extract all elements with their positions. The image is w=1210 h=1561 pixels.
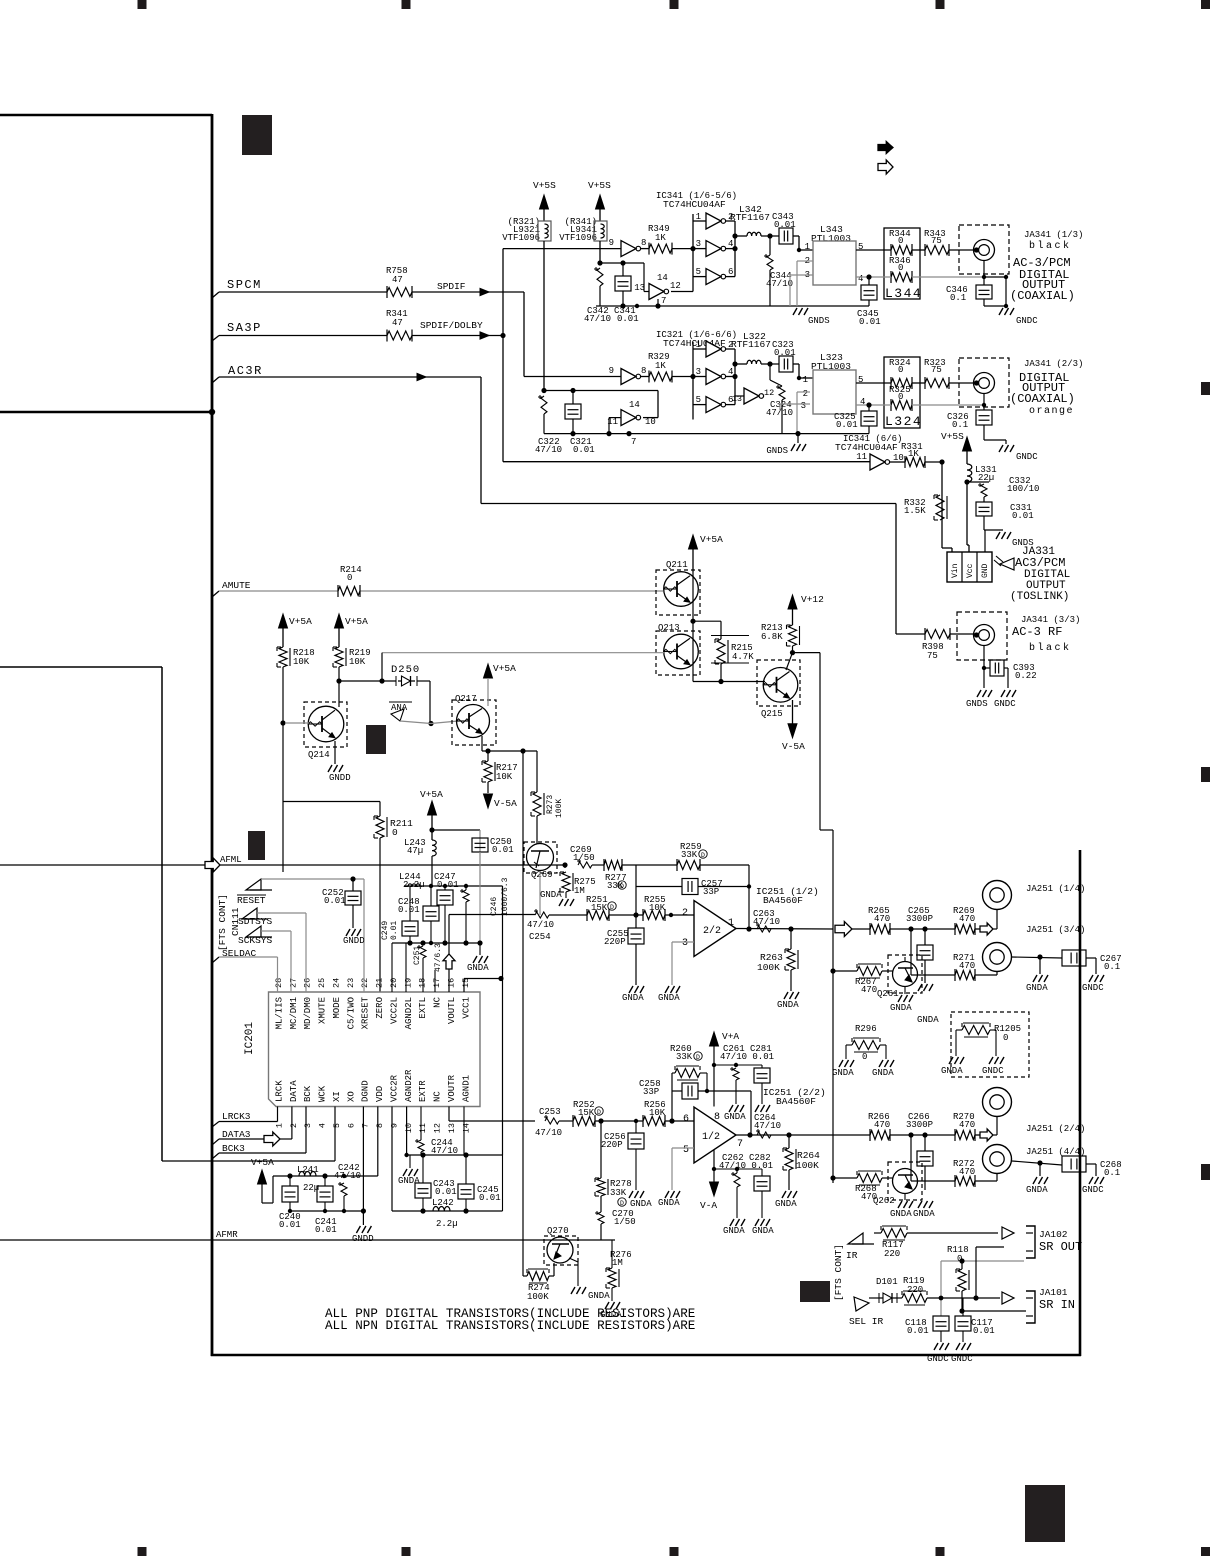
wire JA102 switch to SR IN	[976, 1246, 1004, 1248]
node BCK3 tap	[212, 1153, 219, 1159]
ground GNDS toslink	[996, 532, 1000, 539]
wire pin17 stub	[434, 970, 436, 992]
ground GNDA C282	[755, 1219, 759, 1226]
ground GNDA R296 left	[839, 1060, 843, 1067]
svg-text:BCK: BCK	[303, 1085, 313, 1102]
svg-text:MC/DM1: MC/DM1	[289, 997, 299, 1029]
wire AFMR	[0, 1239, 615, 1241]
registration tick bottom 3	[670, 1547, 679, 1556]
svg-text:C254: C254	[529, 932, 551, 942]
wire C323 to PTL2 pin1	[793, 363, 799, 365]
legend arrow filled	[878, 142, 893, 154]
wire inverter bank2 output bus	[734, 349, 736, 405]
resistor R117 220	[881, 1229, 907, 1238]
wire inverter 10 output	[643, 417, 658, 419]
node Q214 base junction	[280, 720, 285, 725]
registration tick right edge 2	[1201, 767, 1210, 782]
capacitor C241 0.01	[324, 1176, 326, 1186]
svg-text:10K: 10K	[293, 657, 310, 667]
svg-text:GNDC: GNDC	[1016, 452, 1038, 462]
svg-text:ML/IIS: ML/IIS	[275, 997, 285, 1029]
svg-text:V+12: V+12	[801, 594, 824, 605]
svg-text:SPCM: SPCM	[227, 278, 262, 292]
svg-text:V+5A: V+5A	[251, 1157, 274, 1168]
svg-text:3: 3	[696, 367, 701, 377]
capacitor C282 0.01	[761, 1169, 763, 1176]
svg-text:GNDA: GNDA	[723, 1226, 745, 1236]
svg-text:GNDC: GNDC	[927, 1354, 949, 1364]
arrow SPDIF direction	[480, 288, 489, 295]
registration tick right edge 1	[1201, 382, 1210, 395]
svg-text:GNDA: GNDA	[588, 1291, 610, 1301]
wire PTL pin3 stub	[790, 274, 813, 276]
ground GNDD dac	[356, 1226, 360, 1233]
wire Q270 emitter	[569, 1258, 578, 1262]
svg-text:GNDA: GNDA	[872, 1068, 894, 1078]
wire SDTSYS	[257, 912, 306, 914]
svg-text:JA341 (3/3): JA341 (3/3)	[1021, 615, 1080, 625]
svg-text:33K: 33K	[676, 1052, 693, 1062]
black marker block A	[242, 115, 272, 155]
svg-text:LRCK: LRCK	[275, 1080, 285, 1102]
svg-text:GNDD: GNDD	[343, 936, 365, 946]
node mute bus R267	[830, 968, 835, 973]
wire digital rail	[273, 1175, 378, 1177]
svg-text:Vin: Vin	[951, 563, 960, 578]
svg-text:GNDC: GNDC	[982, 1066, 1004, 1076]
wire VOUTL to C254	[449, 914, 535, 916]
svg-text:V+5A: V+5A	[345, 616, 368, 627]
svg-text:SCKSYS: SCKSYS	[238, 935, 273, 946]
svg-text:33P: 33P	[703, 887, 719, 897]
svg-text:47/10: 47/10	[527, 920, 554, 930]
svg-text:75: 75	[931, 236, 942, 246]
ground GNDA C255	[629, 986, 633, 993]
wire R344 to R343	[912, 249, 925, 251]
svg-text:R273: R273	[546, 795, 555, 814]
svg-text:orange: orange	[1029, 406, 1074, 417]
svg-text:3: 3	[682, 938, 688, 949]
capacitor C117 0.01	[962, 1298, 964, 1316]
wire lower op-amp output	[735, 1134, 870, 1136]
wire inverter bank input bus	[692, 214, 694, 292]
svg-text:0.01: 0.01	[907, 1326, 929, 1336]
wire SPDIF to IC321	[523, 292, 525, 377]
wire Q211 emitter chain	[692, 572, 694, 682]
node R219 D250	[336, 678, 341, 683]
svg-text:3: 3	[801, 401, 806, 411]
node SPDIF/DOLBY junction	[500, 333, 505, 338]
svg-text:V+5A: V+5A	[493, 663, 516, 674]
arrow JA102	[1002, 1227, 1014, 1239]
resistor R264 100K	[788, 1135, 790, 1148]
connector JA341 2/3 coax jack	[959, 358, 1009, 407]
wire C250 column	[479, 852, 481, 943]
svg-text:C249: C249	[381, 921, 390, 940]
capacitor C256 220P	[635, 1121, 637, 1133]
svg-text:EXTR: EXTR	[418, 1080, 428, 1102]
capacitor C244 47/10	[420, 1107, 422, 1141]
svg-text:2/2: 2/2	[703, 925, 721, 937]
svg-text:V+5A: V+5A	[420, 789, 443, 800]
resistor network L324 box	[884, 357, 920, 428]
svg-text:AMUTE: AMUTE	[222, 580, 251, 591]
wire to JA101	[927, 1297, 1000, 1299]
svg-text:JA251 (2/4): JA251 (2/4)	[1026, 1124, 1085, 1134]
node C323 junction	[767, 361, 772, 366]
svg-text:Q261: Q261	[877, 989, 899, 999]
wire V+5S row1 rail	[600, 262, 644, 264]
svg-text:11: 11	[856, 452, 867, 462]
svg-text:6: 6	[683, 1114, 689, 1125]
connector pin SEL IR	[854, 1297, 869, 1311]
svg-text:WCK: WCK	[318, 1085, 328, 1102]
svg-text:GNDD: GNDD	[329, 773, 351, 783]
ground GNDA dac	[479, 943, 481, 955]
capacitor C324 47/10	[769, 364, 771, 380]
svg-text:GNDS: GNDS	[966, 699, 988, 709]
svg-text:GNDA: GNDA	[658, 1198, 680, 1208]
arrow line out	[835, 922, 852, 937]
ground GNDA C281	[755, 1105, 759, 1112]
svg-text:5: 5	[683, 1145, 689, 1156]
wire XI from sub board	[162, 1160, 335, 1162]
svg-text:16: 16	[446, 978, 456, 988]
svg-text:EXTL: EXTL	[418, 997, 428, 1019]
svg-text:DATA3: DATA3	[222, 1129, 251, 1140]
svg-text:GNDC: GNDC	[1082, 983, 1104, 993]
svg-text:RTF1167: RTF1167	[731, 339, 771, 350]
wire op-amp pin5 ground	[672, 1147, 694, 1149]
wire jack 3/4 shield	[1012, 957, 1062, 958]
svg-text:ALL NPN DIGITAL TRANSISTORS(IN: ALL NPN DIGITAL TRANSISTORS(INCLUDE RESI…	[325, 1319, 695, 1333]
capacitor C255 220P	[635, 927, 637, 929]
ground GNDS rf	[977, 690, 981, 697]
svg-text:0: 0	[862, 1052, 867, 1062]
capacitor C342 47/10	[597, 268, 603, 286]
wire DGND pin7	[362, 1107, 364, 1226]
capacitor C240 0.01	[289, 1176, 291, 1186]
svg-text:1.5K: 1.5K	[904, 506, 926, 516]
svg-text:0.01: 0.01	[324, 896, 346, 906]
connector pin RESET	[246, 879, 261, 890]
svg-text:75: 75	[927, 651, 938, 661]
resistor R398 75	[925, 630, 950, 639]
svg-text:JA251 (1/4): JA251 (1/4)	[1026, 884, 1085, 894]
svg-text:1: 1	[805, 242, 810, 252]
svg-text:GNDA: GNDA	[398, 1176, 420, 1186]
svg-text:(COAXIAL): (COAXIAL)	[1010, 289, 1075, 303]
svg-text:470: 470	[874, 914, 890, 924]
registration tick top 2	[402, 0, 411, 9]
ground GNDA C266	[918, 1201, 922, 1208]
node LRCK3 tap	[212, 1122, 219, 1128]
svg-text:470: 470	[959, 1167, 975, 1177]
svg-text:0: 0	[898, 236, 903, 246]
svg-text:0.01: 0.01	[973, 1326, 995, 1336]
sheet border top-left segment	[0, 114, 212, 117]
node AMUTE tap	[212, 591, 219, 597]
resistor R273 100K	[536, 751, 538, 792]
svg-text:V-A: V-A	[700, 1200, 717, 1211]
node lower summing junction	[598, 1118, 603, 1123]
node SPCM tap	[212, 292, 219, 298]
wire Q269 collector stub	[539, 871, 541, 915]
svg-text:BA4560F: BA4560F	[776, 1096, 816, 1107]
connector JA341 1/3 coax jack	[959, 225, 1009, 274]
transistor Q261 mute	[888, 955, 922, 993]
capacitor C261 47/10	[733, 1068, 739, 1080]
svg-text:0.01: 0.01	[479, 1193, 501, 1203]
svg-text:10K: 10K	[496, 772, 513, 782]
svg-text:AGND2R: AGND2R	[404, 1069, 414, 1102]
svg-text:V+5S: V+5S	[588, 180, 611, 191]
svg-text:47/10: 47/10	[431, 1146, 458, 1156]
svg-text:Q215: Q215	[761, 709, 783, 719]
wire RF jack shield	[983, 646, 985, 688]
svg-text:100K: 100K	[555, 799, 564, 818]
svg-text:0: 0	[898, 263, 903, 273]
svg-text:0.01: 0.01	[859, 317, 881, 327]
wire AMUTE	[219, 590, 338, 592]
svg-text:2: 2	[289, 1123, 299, 1128]
svg-text:1M: 1M	[574, 886, 585, 896]
svg-text:GNDC: GNDC	[951, 1354, 973, 1364]
transistor Q215	[757, 660, 800, 706]
svg-text:0.01: 0.01	[279, 1220, 301, 1230]
connector JA101 SR IN	[1026, 1291, 1035, 1323]
svg-text:3: 3	[696, 239, 701, 249]
svg-text:0.1: 0.1	[1104, 962, 1120, 972]
svg-text:12: 12	[670, 281, 681, 291]
svg-text:75: 75	[931, 365, 942, 375]
capacitor C345 0.01	[868, 277, 870, 285]
svg-text:AC3R: AC3R	[228, 364, 263, 378]
svg-text:1K: 1K	[655, 233, 666, 243]
svg-text:2.2µ: 2.2µ	[403, 880, 425, 890]
svg-text:D: D	[620, 883, 624, 890]
svg-text:VOUTL: VOUTL	[447, 997, 457, 1024]
feedback network lower	[671, 1073, 673, 1121]
svg-text:C246: C246	[490, 897, 499, 916]
wire to C250	[432, 829, 480, 831]
wire to GNDS toslink	[984, 529, 1003, 531]
svg-text:DGND: DGND	[361, 1080, 371, 1102]
ground GNDA pin3	[665, 986, 669, 993]
svg-text:7: 7	[631, 437, 636, 447]
svg-text:47/10: 47/10	[535, 1128, 562, 1138]
svg-text:0.01: 0.01	[573, 445, 595, 455]
svg-text:33P: 33P	[643, 1087, 659, 1097]
wire PTL pin2 stub	[797, 260, 813, 262]
svg-text:4.7K: 4.7K	[732, 652, 754, 662]
svg-text:TC74HCU04AF: TC74HCU04AF	[663, 199, 726, 210]
capacitor C245 0.01	[465, 1155, 467, 1184]
svg-text:1000/6.3: 1000/6.3	[501, 877, 510, 916]
svg-text:ZERO: ZERO	[375, 997, 385, 1019]
svg-text:GNDA: GNDA	[467, 963, 489, 973]
wire PTL2 pin3 stub	[780, 403, 810, 405]
svg-text:15K: 15K	[591, 903, 608, 913]
wire jack2 shield down	[983, 394, 985, 405]
ground GNDC jack34	[1089, 975, 1093, 982]
capacitor C254 47/10	[535, 912, 549, 918]
svg-text:VCC2L: VCC2L	[389, 997, 399, 1024]
svg-text:D: D	[610, 904, 614, 911]
svg-text:47/10: 47/10	[334, 1171, 361, 1181]
svg-text:0.01: 0.01	[315, 1225, 337, 1235]
wire Q213 base	[382, 652, 664, 654]
wire AFML to summing node	[622, 864, 677, 866]
wire Q214 collector	[338, 681, 340, 707]
power V-5A R217	[484, 794, 493, 808]
svg-text:6: 6	[728, 267, 733, 277]
svg-text:GNDS: GNDS	[766, 446, 788, 456]
wire pin19 to bus	[405, 943, 407, 992]
svg-text:GNDA: GNDA	[913, 1209, 935, 1219]
svg-text:24: 24	[331, 978, 341, 988]
svg-text:47: 47	[392, 275, 403, 285]
svg-text:AGND2L: AGND2L	[404, 997, 414, 1029]
wire GNDS bus row2 oscillator	[544, 433, 658, 435]
wire IR to JA102	[874, 1232, 881, 1234]
capacitor C281 0.01	[761, 1065, 763, 1068]
ground GNDD C252	[346, 929, 350, 936]
wire V-A pin4	[713, 1150, 715, 1182]
ground GNDA R275	[559, 899, 563, 906]
wire VCC2R pin9 loop	[391, 1107, 393, 1212]
svg-text:100/10: 100/10	[1007, 484, 1039, 494]
svg-text:black: black	[1029, 240, 1072, 252]
capacitor C325 0.01	[868, 405, 870, 411]
node mute bus R268	[830, 1175, 835, 1180]
off-page heavy wire y=412	[0, 411, 212, 414]
wire inverter bank2 input bus	[692, 342, 694, 420]
svg-text:10: 10	[645, 417, 656, 427]
wire to R271 branch	[910, 929, 912, 975]
svg-text:470: 470	[874, 1120, 890, 1130]
node L331 out	[964, 479, 969, 484]
svg-text:1/50: 1/50	[573, 853, 595, 863]
svg-text:RESET: RESET	[237, 895, 266, 906]
svg-text:Vcc: Vcc	[966, 563, 975, 578]
capacitor C322 47/10	[541, 396, 547, 414]
arrow to jack 2/4	[980, 1129, 993, 1141]
wire Q215 collector	[786, 653, 793, 670]
ground GNDA pin5	[665, 1191, 669, 1198]
svg-text:33K: 33K	[610, 1188, 627, 1198]
wire GNDS bus row2 right	[658, 433, 869, 435]
ground GNDC row2	[999, 445, 1003, 452]
svg-text:V+5S: V+5S	[533, 180, 556, 191]
svg-text:470: 470	[959, 1120, 975, 1130]
svg-text:BA4560F: BA4560F	[763, 895, 803, 906]
ground GNDA R264	[782, 1191, 786, 1198]
wire SCKSYS	[261, 930, 291, 932]
node R349 output junction	[690, 246, 695, 251]
registration tick bottom 4	[936, 1547, 945, 1556]
wire Vcc decoupling	[967, 481, 989, 483]
ground GNDA jack34	[1033, 975, 1037, 982]
sheet border right	[1079, 850, 1082, 1356]
node SELDAC tap	[212, 957, 219, 963]
svg-text:0: 0	[1003, 1033, 1008, 1043]
svg-text:GNDA: GNDA	[1026, 983, 1048, 993]
connector pin SDTSYS	[242, 908, 257, 919]
wire summing node vertical	[635, 865, 637, 928]
svg-text:VDD: VDD	[375, 1086, 385, 1102]
svg-text:XI: XI	[332, 1091, 342, 1102]
power V-A	[710, 1182, 719, 1196]
svg-text:V+5A: V+5A	[289, 616, 312, 627]
ground GNDC C117	[956, 1343, 960, 1350]
svg-text:14: 14	[629, 400, 640, 410]
inductor L331 22u	[967, 464, 972, 482]
node L243 top	[429, 827, 434, 832]
power V-5A Q215	[792, 700, 794, 724]
registration tick top right corner	[1201, 0, 1210, 9]
svg-text:47/10 0.01: 47/10 0.01	[720, 1052, 774, 1062]
svg-text:13: 13	[634, 283, 645, 293]
svg-text:3300P: 3300P	[906, 1120, 933, 1130]
svg-text:C5/IWO: C5/IWO	[346, 997, 356, 1029]
transistor Q214	[304, 702, 347, 747]
svg-text:GNDA: GNDA	[890, 1209, 912, 1219]
svg-text:Q217: Q217	[455, 694, 477, 704]
ground GNDC C118	[934, 1343, 938, 1350]
sheet border bottom	[211, 1354, 1081, 1357]
svg-text:47/10: 47/10	[754, 1121, 781, 1131]
svg-text:L344: L344	[885, 286, 922, 301]
svg-text:[FTS CONT]: [FTS CONT]	[833, 1244, 844, 1301]
svg-text:20: 20	[389, 978, 399, 988]
svg-text:5: 5	[332, 1123, 342, 1128]
connector JA251 2/4 jack	[993, 1134, 997, 1136]
capacitor C321 0.01	[572, 391, 574, 405]
svg-text:GNDA: GNDA	[775, 1199, 797, 1209]
node SA3P tap	[212, 336, 219, 342]
svg-text:15: 15	[461, 978, 471, 988]
svg-text:GND: GND	[981, 563, 990, 578]
capacitor C242 47/10	[341, 1183, 347, 1196]
node AFML C269	[562, 862, 567, 867]
svg-text:MD/DM0: MD/DM0	[303, 997, 313, 1029]
ground GNDC jack44	[1089, 1177, 1093, 1184]
svg-text:SDTSYS: SDTSYS	[238, 916, 273, 927]
svg-text:1/50: 1/50	[614, 1217, 636, 1227]
svg-text:0.01: 0.01	[492, 845, 514, 855]
svg-text:5: 5	[696, 267, 701, 277]
svg-text:19: 19	[403, 978, 413, 988]
node R331 output	[939, 459, 944, 464]
svg-text:SA3P: SA3P	[227, 321, 262, 335]
svg-text:3300P: 3300P	[906, 914, 933, 924]
svg-text:7: 7	[737, 1139, 743, 1150]
resistor R1205 0 optional	[951, 1012, 1029, 1077]
off-page block outline lower-left	[0, 666, 162, 668]
svg-text:8: 8	[641, 366, 646, 376]
wire PTL pin4 shield row1	[856, 276, 891, 278]
ground GNDA R263	[784, 992, 788, 999]
resistor R267 470	[857, 967, 882, 976]
capacitor C267 0.1	[1062, 950, 1086, 966]
svg-text:0.1: 0.1	[952, 420, 968, 430]
connector pin SCKSYS	[246, 926, 261, 937]
transistor Q269 mute	[524, 842, 557, 873]
registration tick bottom 2	[402, 1547, 411, 1556]
svg-text:10K: 10K	[349, 657, 366, 667]
svg-text:V+5S: V+5S	[941, 431, 964, 442]
